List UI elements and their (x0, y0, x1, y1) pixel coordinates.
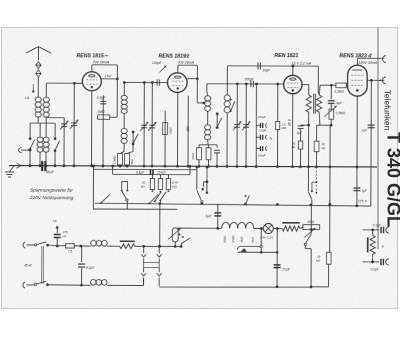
wire V1 cathode (91, 91, 93, 166)
resistor barretter (282, 223, 300, 231)
switch blade d (245, 195, 250, 204)
tube V4 RENS1823d (348, 65, 368, 96)
resistor bank a (141, 174, 155, 191)
wire V3 anode (302, 85, 309, 96)
heater winding 1821 (246, 222, 255, 243)
jack headphone (238, 233, 279, 253)
wire trafo prim to bus (307, 112, 309, 167)
wire x311 lower (305, 245, 312, 288)
resistor 2,5MOhm (275, 83, 287, 167)
label 175V (358, 199, 368, 203)
switch S1b (54, 123, 60, 167)
svg-text:45 W: 45 W (24, 264, 32, 268)
label 10kOhm box (157, 171, 166, 175)
resistor 10kOhm b (206, 148, 211, 167)
svg-text:µF: µF (63, 234, 67, 238)
wire selector left (107, 278, 144, 285)
wire ift1 base (199, 145, 217, 148)
svg-text:10pF: 10pF (262, 68, 271, 72)
resistor 25kOhm (311, 252, 332, 287)
variable capacitor C2 (70, 83, 79, 167)
arrow LA (32, 84, 35, 94)
wire rail L2 (93, 208, 177, 210)
wire link y117 (46, 117, 64, 119)
svg-text:0,1µF: 0,1µF (136, 171, 145, 175)
switch S4 (230, 99, 235, 112)
wire top rail (227, 65, 318, 68)
resistor heizwiderstand (107, 241, 135, 249)
wire heater right (273, 227, 282, 230)
svg-text:10kΩ: 10kΩ (191, 152, 195, 160)
coil L1b (43, 97, 49, 117)
svg-text:17µF: 17µF (282, 268, 291, 272)
wire antenna down (37, 77, 39, 97)
transformer secondary (317, 95, 322, 112)
coil IFT1 lower (204, 125, 210, 145)
mech link dashed (311, 167, 318, 194)
variable capacitor C3 (140, 82, 149, 166)
voltage selector (141, 245, 162, 286)
coil L1a (35, 97, 41, 117)
svg-text:70V 28mA: 70V 28mA (92, 61, 109, 65)
coil IFT1 primary (205, 96, 211, 112)
title separator line (377, 28, 379, 250)
label RENS 1815 (76, 53, 108, 59)
resistor 1,2MOhm (334, 83, 347, 94)
capacitor 100pF b (244, 77, 255, 87)
tube V3 REN1821 (284, 75, 302, 93)
wire coil joins (38, 117, 46, 123)
switch S1a (29, 123, 35, 167)
wire V2 cathode (177, 92, 179, 166)
wire V3 top (292, 66, 294, 75)
note Spannungswerte (29, 188, 74, 202)
capacitor 0,1uF mains (78, 246, 95, 287)
svg-text:1,2MΩ: 1,2MΩ (334, 90, 344, 94)
main ground bus (9, 164, 377, 168)
coil IFT1 secondary (224, 66, 231, 167)
coil choke b (121, 113, 127, 148)
capacitor 275pF (54, 230, 68, 247)
capacitor speaker top (381, 227, 384, 233)
switch heater (304, 229, 311, 245)
capacitor speaker bottom (381, 259, 384, 265)
variable capacitor C1 (60, 118, 69, 167)
resistor 20kOhm (291, 141, 303, 167)
label 0,1uF box (136, 171, 145, 175)
connector hook anode (382, 77, 385, 84)
fuse 7,5 (57, 244, 82, 254)
label 35V (186, 125, 190, 132)
svg-text:1MΩ: 1MΩ (97, 110, 105, 114)
wire speaker top (363, 229, 380, 232)
wire V2 anode to IFT (197, 102, 205, 105)
bus arrow (16, 163, 21, 168)
wire trafo sec top (319, 84, 332, 95)
resistor 15kOhm (163, 111, 173, 167)
svg-text:0,5MΩ: 0,5MΩ (336, 111, 346, 115)
wire ift1 (207, 111, 209, 124)
wire V3 grid rail (207, 82, 284, 96)
antenna lightning arrester (36, 62, 41, 77)
svg-text:RENS 1819⁄z: RENS 1819⁄z (158, 54, 189, 60)
wire bottom rail (159, 285, 311, 288)
wire top to trafo (318, 66, 319, 95)
svg-text:2,0µF: 2,0µF (258, 128, 267, 132)
svg-text:220V Netzspannung: 220V Netzspannung (29, 195, 74, 201)
label 0,1uF sp1 (373, 223, 382, 227)
wire rail L1 (95, 202, 371, 207)
antenna (26, 47, 51, 61)
svg-text:35 V: 35 V (288, 118, 292, 126)
wire V1 grid (74, 82, 82, 84)
svg-text:70V 28mA: 70V 28mA (177, 61, 194, 65)
heater winding NSB2 (230, 222, 238, 243)
wire trafo sec bottom (317, 112, 333, 126)
wire 1uF line (370, 80, 372, 206)
wire heiz out (135, 245, 182, 248)
svg-text:1823: 1823 (240, 236, 244, 243)
svg-text:T 340 G/GL: T 340 G/GL (384, 132, 400, 227)
svg-text:REN 1821: REN 1821 (274, 53, 298, 59)
wire rail R174 (113, 173, 190, 175)
transformer mains primary (91, 240, 108, 246)
svg-text:1821: 1821 (251, 236, 255, 243)
switch left pair (121, 181, 129, 209)
wire box stub right (189, 167, 191, 175)
wire x160 drop (159, 203, 161, 246)
svg-text:0,5µF: 0,5µF (97, 96, 107, 100)
label 55uF (46, 170, 55, 174)
capacitor 0,5uF (96, 95, 106, 167)
label 45W (24, 264, 32, 268)
capacitor box (150, 170, 153, 176)
label 180V 30mA (358, 61, 377, 65)
svg-text:3,5V 0,2A: 3,5V 0,2A (260, 235, 273, 239)
svg-text:a: a (382, 244, 384, 248)
label RENS 1823 d (339, 53, 372, 59)
capacitor 100pF a (152, 61, 163, 86)
transformer core (314, 94, 316, 114)
label LA (25, 96, 30, 100)
wire V4 top cap (357, 58, 384, 65)
capacitor chain CTa (255, 83, 273, 167)
lamp dial (260, 223, 274, 239)
switch blade b (148, 195, 157, 205)
resistor bank b (158, 175, 162, 193)
wire box tap (111, 165, 114, 175)
resistor 10kOhm a (191, 148, 201, 167)
switch mains b (23, 281, 49, 288)
mains lead a (42, 246, 44, 284)
wire V2 anode box (178, 65, 199, 103)
svg-text:Telefunken: Telefunken (383, 90, 393, 131)
svg-text:0,5µF: 0,5µF (258, 115, 266, 119)
label 70V 28mA v1 (92, 61, 109, 65)
wire L2 drop (92, 165, 95, 209)
svg-text:Spannungswerte für: Spannungswerte für (30, 188, 73, 194)
wire grid link (46, 82, 82, 97)
label 15V (104, 74, 111, 78)
switch mains a (34, 242, 57, 247)
resistor bank c (166, 175, 178, 192)
transformer primary (306, 95, 311, 112)
svg-text:15kΩ: 15kΩ (169, 127, 173, 135)
heater winding NSB1 (222, 222, 230, 243)
avc arrow (159, 66, 166, 73)
svg-text:180V 30mA: 180V 30mA (358, 61, 377, 65)
svg-text:175 V: 175 V (358, 199, 368, 203)
wire V3 cathode (291, 94, 293, 167)
tube V1 RENS1815 (82, 72, 101, 91)
resistor 5kOhm (125, 148, 134, 167)
potentiometer tone (168, 228, 180, 248)
capacitor 55uF electrolytic (42, 161, 45, 171)
label 70V 28mA v2 (177, 61, 194, 65)
svg-text:0,3MΩ: 0,3MΩ (113, 155, 117, 164)
variable capacitor C6 (242, 84, 251, 167)
wire heater left (177, 227, 222, 230)
switch bank (154, 192, 166, 204)
wire heater mid (254, 227, 264, 233)
tube V2 RENS1819 (167, 73, 187, 93)
label 35V b (288, 118, 292, 126)
connector phono (202, 166, 209, 194)
capacitor 17uF (274, 229, 291, 287)
svg-text:10 kΩ: 10 kΩ (157, 171, 166, 175)
capacitor 10pF (258, 62, 271, 72)
wire cathode2 (187, 96, 189, 167)
label 15V 2,2mA (291, 62, 311, 66)
capacitor 7uF (353, 188, 368, 193)
svg-text:0,1µF: 0,1µF (86, 266, 95, 270)
wire V1 anode box (92, 65, 119, 117)
capacitor ift1 (214, 150, 220, 166)
wire V4 anode out (367, 79, 384, 82)
svg-text:55µF: 55µF (46, 170, 55, 174)
wire link y123 (30, 122, 55, 124)
resistor 10 Ohm (300, 220, 320, 238)
wire pot down (328, 125, 331, 252)
svg-text:Ta: Ta (269, 137, 273, 141)
svg-text:NSB2: NSB2 (231, 235, 235, 243)
switch blade a (100, 194, 110, 204)
coil HF choke (121, 81, 127, 113)
transformer speaker (368, 230, 376, 262)
switch wave c (195, 166, 203, 203)
potentiometer 0,5MOhm (324, 106, 346, 126)
wire rail R169 (93, 168, 196, 170)
connector hook sp2 (386, 259, 389, 265)
switch mains2 (179, 233, 191, 247)
connector arrow in (19, 148, 32, 153)
capacitor 2uF (296, 124, 310, 141)
svg-text:5kΩ: 5kΩ (130, 158, 134, 164)
capacitor 4uF (328, 85, 343, 109)
wire speaker bottom (363, 261, 380, 264)
connector hook sp1 (386, 227, 389, 233)
wire mains b (47, 284, 90, 286)
wire anode rail y84 (331, 84, 335, 86)
coil L2b (43, 123, 49, 167)
label RENS 1819 (158, 54, 189, 60)
svg-text:2µF: 2µF (296, 131, 304, 135)
resistor 10kOhm c (314, 125, 326, 167)
svg-text:1µF: 1µF (205, 214, 212, 218)
label a (382, 244, 384, 248)
svg-text:0,5µF: 0,5µF (258, 153, 266, 157)
svg-text:I.A: I.A (25, 96, 30, 100)
switch mains main (307, 165, 312, 228)
switch S2 (132, 131, 138, 149)
variable capacitor C5 (233, 84, 242, 167)
arrow LA2 (53, 219, 59, 233)
svg-text:100pF: 100pF (152, 61, 163, 65)
coil L2a (37, 123, 43, 167)
variable capacitor C4 (148, 83, 157, 167)
switch S3 (216, 112, 222, 128)
label 0,1uF sp2 (371, 267, 380, 271)
wire grid2 rail (124, 81, 168, 84)
heater winding 1823 (238, 222, 246, 243)
svg-text:0,1µF: 0,1µF (371, 267, 380, 271)
wire V4 cathode (356, 96, 359, 207)
label REN 1821 (274, 53, 298, 59)
svg-text:15V: 15V (104, 74, 111, 78)
ground symbol (5, 166, 14, 177)
transformer mains secondary (91, 279, 108, 285)
svg-text:NSB1: NSB1 (223, 235, 227, 243)
resistor 1MOhm (97, 110, 117, 120)
connector mains top (23, 242, 34, 248)
svg-text:I A: I A (53, 219, 57, 223)
svg-text:15 V 2,2 mA: 15 V 2,2 mA (291, 62, 311, 66)
capacitor 1uF a (362, 125, 375, 132)
svg-text:7,5: 7,5 (68, 250, 73, 254)
resistor 0,3MOhm (112, 148, 124, 167)
svg-text:RENS 1815∼: RENS 1815∼ (76, 53, 108, 59)
svg-text:MΩ: MΩ (172, 185, 178, 189)
capacitor 1uF b (205, 204, 221, 229)
connector hook top (383, 56, 386, 63)
